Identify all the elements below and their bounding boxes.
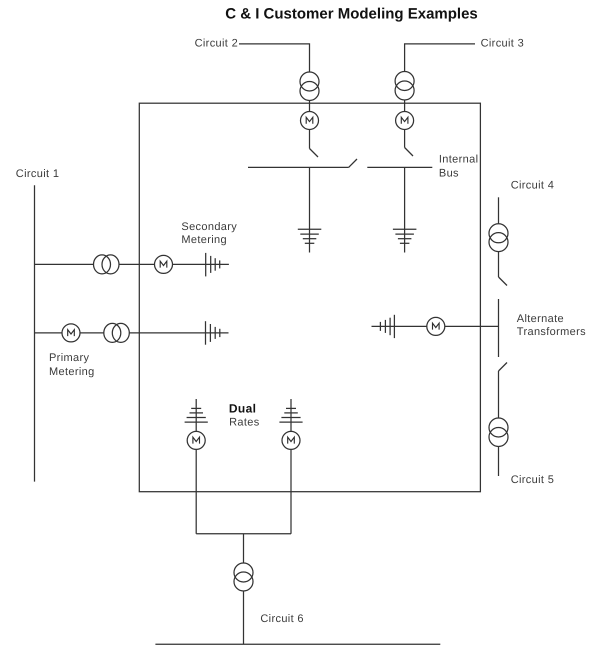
wire primary row segment 3 [129,332,228,334]
switch SW2 blade [310,149,319,158]
svg-text:Transformers: Transformers [517,326,586,338]
switch SW5 blade [499,363,508,372]
wire primary row segment 1 [35,332,63,334]
wire circuit5 tail [498,447,500,477]
switch bus-tie blade [349,159,357,167]
service grading bars dual-left [185,408,208,422]
meter M3 [396,112,414,130]
svg-text:Secondary: Secondary [181,221,237,233]
service grading bars primary [206,321,220,345]
wire dual-left upper [195,399,197,431]
svg-text:Circuit 1: Circuit 1 [16,168,60,180]
svg-text:Rates: Rates [229,416,260,428]
wire circuit4 lead [498,197,500,224]
node Primary Metering label [49,352,95,378]
wire connector to T6 [243,534,245,563]
wire T6 to bottom bus [243,591,245,644]
service grading bars dual-right [279,408,302,422]
meter Mdual-left [187,431,205,449]
svg-text:Internal: Internal [439,153,479,165]
wire bus to ground G2 [309,167,311,252]
svg-text:Circuit 6: Circuit 6 [260,613,304,625]
node Dual Rates label [229,402,260,429]
wire T4 to switch [498,252,500,277]
wire T3 to M3 [404,100,406,112]
facility box [139,103,480,492]
svg-text:Circuit 3: Circuit 3 [481,37,524,49]
wire M2 to switch [309,130,311,149]
wire bus to ground G3 [404,167,406,252]
wire alternate row right [445,325,499,327]
transformer T4 [489,224,508,252]
ground G2 [298,229,322,243]
wire circuit3 lead [405,44,475,72]
ground G3 [393,229,417,243]
node Secondary Metering label [181,221,237,246]
switch SW4 blade [499,277,508,286]
wire alternate row left [372,325,428,327]
meter Malt [427,317,445,335]
wire circuit1 feeder [34,185,36,481]
wire secondary row segment 3 [173,263,229,265]
svg-text:Alternate: Alternate [517,313,564,325]
wire M3 to switch [404,130,406,148]
node Alternate Transformers label [517,313,586,338]
svg-text:C & I Customer Modeling Exampl: C & I Customer Modeling Examples [225,5,478,22]
transformer T6 [234,563,253,591]
service grading bars secondary [206,253,220,277]
meter M2 [301,112,319,130]
wire dual-left lower [195,449,197,533]
transformer T2 [300,72,319,101]
transformer T3 [395,72,414,101]
svg-text:Circuit 2: Circuit 2 [195,37,239,49]
service grading bars alternate [380,315,394,338]
switch SW3 blade [405,148,413,157]
wire secondary row segment 1 [35,263,94,265]
wire internal bus left [248,166,349,168]
transformer Tsec [94,255,120,274]
svg-text:Circuit 5: Circuit 5 [511,474,555,486]
meter Mdual-right [282,431,300,449]
node Internal Bus label [439,153,479,179]
wire primary row segment 2 [80,332,104,334]
wire switch to T5 [498,371,500,418]
wire dual-right lower [290,449,292,533]
transformer Tpri [104,323,130,342]
meter Mpri [62,324,80,342]
wire bottom bus [155,643,440,645]
meter Msec [155,255,173,273]
wire dual-right upper [290,399,292,431]
wire switch to junction [498,299,500,357]
wire T2 to M2 [309,101,311,112]
transformer T5 [489,418,508,447]
wire dual connector [196,533,291,535]
svg-text:Primary: Primary [49,352,89,364]
svg-text:Metering: Metering [181,234,227,246]
svg-text:Dual: Dual [229,402,256,416]
svg-text:Bus: Bus [439,168,459,180]
svg-text:Metering: Metering [49,366,95,378]
wire internal bus right [367,166,432,168]
wire circuit2 lead [239,44,310,72]
svg-text:Circuit 4: Circuit 4 [511,180,555,192]
wire secondary row segment 2 [119,263,155,265]
